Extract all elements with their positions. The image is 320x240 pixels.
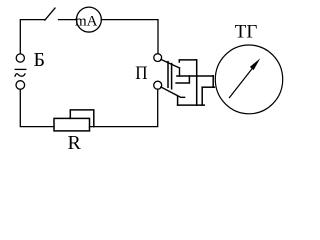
terminal circle (source Б upper) <box>16 54 24 62</box>
thermocouple wire lower to gauge <box>202 86 214 88</box>
wire left side down and bottom to resistor <box>20 89 54 126</box>
heater element vertical 1 <box>167 62 169 88</box>
lead vertical to furnace bottom <box>177 97 179 106</box>
switch K lever <box>45 8 55 20</box>
svg-text:R: R <box>68 132 82 154</box>
heater bottom diagonal lead <box>161 87 185 97</box>
wire top-left corner and top wire to switch <box>20 20 45 54</box>
heater terminal circle upper <box>154 54 162 62</box>
svg-text:Б: Б <box>34 49 46 71</box>
resistor tap (rheostat) <box>70 110 94 127</box>
galvanometer needle arrowhead <box>250 58 260 70</box>
heater top diagonal lead <box>161 59 180 68</box>
svg-text:ТГ: ТГ <box>235 22 258 43</box>
ammeter mA circle <box>76 7 101 32</box>
svg-text:mA: mA <box>75 14 98 30</box>
galvanometer needle <box>230 67 254 98</box>
svg-text:П: П <box>135 63 148 84</box>
resistor R body <box>54 118 90 130</box>
wire ammeter to right corner, down to plug terminal <box>101 20 158 54</box>
wire resistor to right riser <box>90 89 158 126</box>
heater lead short vertical <box>179 68 181 76</box>
terminal circle (source Б lower) <box>16 81 25 90</box>
heater terminal circle lower <box>154 81 162 89</box>
wire switch to ammeter <box>59 19 77 21</box>
furnace right vertical <box>196 60 198 105</box>
AC symbol bar <box>15 68 26 70</box>
AC symbol tilde <box>15 74 25 76</box>
lower gauge wire vertical <box>201 87 203 105</box>
furnace bottom edge <box>178 104 205 106</box>
heater element vertical 2 <box>171 64 173 89</box>
furnace top edge with left tick <box>179 60 196 62</box>
gauge connection bar <box>212 76 214 87</box>
thermocouple junction bar <box>176 76 189 83</box>
thermocouple wire upper to gauge <box>177 75 213 77</box>
galvanometer TG circle <box>215 45 282 114</box>
